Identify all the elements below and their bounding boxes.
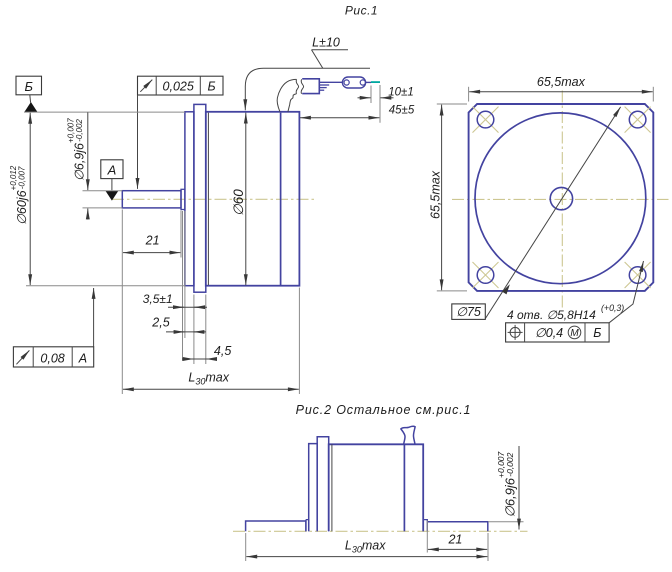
- svg-text:∅6,9j6+0,007-0,002: ∅6,9j6+0,007-0,002: [496, 451, 518, 517]
- svg-text:21: 21: [447, 532, 462, 546]
- axis centerline: [112, 198, 317, 200]
- svg-text:Б: Б: [593, 326, 601, 340]
- svg-text:А: А: [78, 351, 87, 365]
- dimension 21: [180, 211, 182, 258]
- body circle: [475, 113, 646, 284]
- datum A triangle: [106, 191, 119, 201]
- svg-text:L30max: L30max: [188, 371, 229, 387]
- svg-text:∅0,4: ∅0,4: [535, 326, 563, 340]
- svg-text:Б: Б: [24, 79, 33, 94]
- mounting hole ticks: [473, 107, 651, 288]
- tinned wire tip (teal): [371, 81, 380, 83]
- leader from 0,08 frame up to boss surface: [93, 288, 95, 347]
- extension lines small dims: [182, 211, 184, 361]
- svg-text:L±10: L±10: [312, 36, 340, 50]
- cable break wavy lines: [296, 79, 299, 94]
- dimension 3,5±1: [168, 306, 207, 308]
- wire tail: [366, 81, 371, 83]
- svg-text:М: М: [570, 328, 579, 339]
- fig2 dimension d6,9j6: [488, 521, 524, 523]
- vertical centerline: [561, 91, 563, 308]
- wire stubs: [319, 81, 342, 83]
- position tolerance frame: [506, 323, 609, 342]
- flange plate: [194, 104, 206, 292]
- svg-text:∅75: ∅75: [456, 305, 481, 319]
- d6,9j6 text: [67, 118, 87, 181]
- extension line bottom d60j6: [26, 285, 185, 287]
- fig2 dimension L30max: [245, 533, 247, 561]
- d75 label box: [452, 304, 486, 320]
- body front joint line: [207, 113, 209, 285]
- fig2 body front joint: [331, 444, 333, 531]
- M circle modifier: [568, 326, 581, 339]
- shaft: [122, 191, 181, 208]
- mounting hole bottom-right: [629, 267, 646, 284]
- leader from frame to bottom-right hole: [609, 261, 643, 323]
- fig2 dimension 21: [426, 521, 428, 553]
- mounting hole bottom-left: [477, 267, 494, 284]
- position symbol: [510, 327, 520, 337]
- fig2 flange: [317, 437, 329, 532]
- svg-text:45±5: 45±5: [389, 105, 415, 117]
- svg-text:L30max: L30max: [345, 539, 386, 555]
- dimension d6,9j6 arrows: [87, 112, 89, 190]
- fig2 body rear joint: [403, 444, 405, 531]
- dimension 45±5: [300, 117, 379, 119]
- mounting hole top-right: [629, 111, 646, 128]
- dimension L cable length curve: [245, 68, 370, 110]
- dimension d75 leader line: [485, 107, 620, 319]
- dimension L30max fig1: [121, 210, 123, 395]
- shaft top/bottom extension lines: [83, 190, 123, 192]
- svg-text:Рис.1: Рис.1: [345, 3, 378, 17]
- datum Б triangle: [24, 102, 37, 112]
- dimension 65,5max top: [468, 87, 470, 102]
- motor body: [206, 112, 300, 286]
- cable boot outer curve: [277, 79, 296, 111]
- svg-text:(+0,3): (+0,3): [601, 303, 624, 313]
- dimension 4,5: [182, 358, 216, 360]
- fig2 left shaft: [246, 521, 306, 531]
- body rear joint line: [280, 113, 282, 285]
- dimension 65,5max left: [437, 103, 467, 105]
- svg-text:65,5max: 65,5max: [537, 75, 586, 89]
- leader from 0,025 frame to shaft: [137, 95, 139, 189]
- d60j6 text: [9, 165, 29, 225]
- boss d60j6: [185, 112, 194, 286]
- svg-text:3,5±1: 3,5±1: [143, 292, 173, 306]
- shaft hole circle: [550, 187, 572, 209]
- svg-text:10±1: 10±1: [388, 86, 414, 98]
- svg-text:0,08: 0,08: [40, 351, 64, 365]
- fig2 axis: [233, 530, 528, 532]
- fig2 right shaft: [427, 522, 488, 532]
- horizontal centerline: [452, 198, 669, 200]
- fig2 body: [329, 444, 424, 531]
- dimension 2,5: [166, 331, 206, 333]
- dimension 10±1: [370, 86, 372, 104]
- wire marker oval: [342, 77, 365, 88]
- dimension d60j6 line: [29, 113, 31, 285]
- svg-text:Б: Б: [208, 80, 216, 94]
- svg-text:∅60j6+0,012-0,007: ∅60j6+0,012-0,007: [9, 165, 29, 225]
- fig2 right step: [423, 520, 427, 532]
- runout frame 0,08 А: [13, 347, 93, 367]
- mounting hole top-left: [477, 111, 494, 128]
- svg-text:4,5: 4,5: [214, 344, 231, 358]
- extension line top d60j6: [24, 111, 185, 113]
- shaft step: [181, 189, 185, 209]
- svg-text:2,5: 2,5: [151, 316, 169, 330]
- dimension d60 body: [245, 113, 247, 286]
- datum A frame: [101, 160, 123, 179]
- svg-text:Рис.2 Остальное см.рис.1: Рис.2 Остальное см.рис.1: [296, 403, 472, 417]
- svg-text:А: А: [107, 162, 117, 177]
- svg-text:21: 21: [145, 234, 160, 248]
- svg-text:∅6,9j6+0,007-0,002: ∅6,9j6+0,007-0,002: [67, 118, 87, 181]
- cable boot inner curve: [288, 94, 297, 112]
- svg-text:4 отв. ∅5,8H14: 4 отв. ∅5,8H14: [507, 308, 596, 322]
- fig2 left step: [306, 520, 309, 532]
- fig2 cable stub: [401, 426, 415, 444]
- flange square: [469, 104, 654, 291]
- datum Б frame: [16, 76, 42, 95]
- svg-text:65,5max: 65,5max: [429, 170, 443, 219]
- svg-text:0,025: 0,025: [163, 80, 194, 94]
- cable sleeve: [302, 79, 319, 94]
- runout frame 0,025 Б: [138, 76, 224, 95]
- svg-text:∅60: ∅60: [231, 189, 246, 216]
- fig2 boss: [309, 444, 318, 532]
